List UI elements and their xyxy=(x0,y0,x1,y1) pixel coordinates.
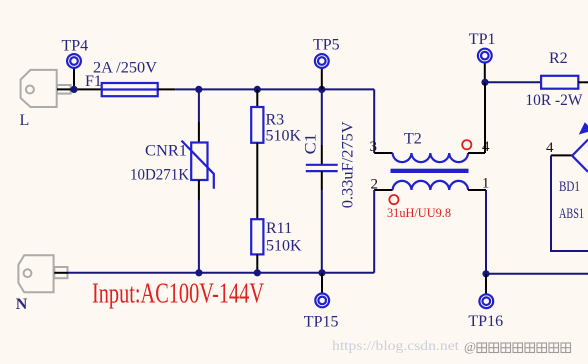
svg-text:TP16: TP16 xyxy=(468,313,503,330)
svg-text:T2: T2 xyxy=(404,131,422,148)
svg-text:Input:AC100V-144V: Input:AC100V-144V xyxy=(92,278,264,309)
test point TP16 xyxy=(468,274,503,330)
svg-text:31uH/UU9.8: 31uH/UU9.8 xyxy=(387,206,451,220)
svg-text:R2: R2 xyxy=(549,50,568,67)
connector L xyxy=(21,70,71,107)
resistor R3 xyxy=(251,89,301,219)
primary winding xyxy=(393,153,468,162)
resistor R2 xyxy=(525,50,583,109)
svg-text:TP4: TP4 xyxy=(62,38,89,55)
polarity dot primary (red circle) xyxy=(462,140,471,149)
wire T2 pin 1 down to bottom-right bus xyxy=(485,190,487,274)
polarity dot secondary (red circle) xyxy=(389,195,398,204)
pin 3 lead xyxy=(374,152,392,154)
svg-text:10D271K: 10D271K xyxy=(130,167,189,184)
fuse F1 xyxy=(85,60,158,97)
junction bottom CNR1 xyxy=(195,269,202,276)
svg-text:510K: 510K xyxy=(266,238,302,255)
diode arrow xyxy=(579,122,588,134)
wire junction to R2 xyxy=(485,81,541,83)
diamond edges xyxy=(572,140,588,172)
test point TP15 xyxy=(304,273,339,331)
connector N xyxy=(18,255,67,292)
secondary winding xyxy=(393,181,468,190)
svg-text:1: 1 xyxy=(482,176,490,192)
svg-text:BD1: BD1 xyxy=(559,179,580,195)
junction TP16 xyxy=(482,270,489,277)
svg-text:TP5: TP5 xyxy=(313,37,340,54)
watermark xyxy=(332,338,571,354)
svg-text:10R -2W: 10R -2W xyxy=(525,92,583,109)
wire L to fuse (black pin) xyxy=(57,88,102,90)
junction bottom R11 xyxy=(254,269,261,276)
junction top CNR1 xyxy=(195,86,202,93)
svg-text:510K: 510K xyxy=(266,128,302,145)
transformer T2 xyxy=(370,131,491,221)
resistor R11 xyxy=(251,219,302,273)
svg-text:R3: R3 xyxy=(266,112,285,129)
capacitor C1 xyxy=(302,89,356,272)
pin 4 lead xyxy=(551,154,572,156)
wire T2 pin 4 up to junction xyxy=(484,82,486,153)
svg-text:@: @ xyxy=(464,339,476,354)
pin 1 lead xyxy=(468,189,486,191)
wire bottom bus xyxy=(68,272,374,274)
wire bottom-right bus xyxy=(486,273,588,275)
svg-text:R11: R11 xyxy=(266,220,292,237)
body box xyxy=(551,155,588,251)
test point TP5 xyxy=(313,37,340,90)
bridge rectifier BD1 xyxy=(546,122,588,251)
pin 2 lead xyxy=(374,189,392,191)
core xyxy=(391,169,469,173)
svg-text:https://blog.csdn.net: https://blog.csdn.net xyxy=(332,338,459,353)
test point TP1 xyxy=(469,31,496,82)
test point TP4 xyxy=(62,38,89,90)
svg-text:TP1: TP1 xyxy=(469,31,496,48)
wire R2 right xyxy=(578,81,588,83)
junction at L/TP4 xyxy=(70,86,77,93)
svg-text:0.33uF/275V: 0.33uF/275V xyxy=(340,121,357,208)
wire fuse right pin (black) xyxy=(158,88,176,90)
junction top R3 xyxy=(254,86,261,93)
wire top bus xyxy=(175,88,374,90)
junction bottom C1/TP15 xyxy=(318,269,325,276)
svg-text:N: N xyxy=(16,296,28,313)
junction top C1/TP5 xyxy=(318,86,325,93)
svg-text:4: 4 xyxy=(546,140,554,156)
varistor CNR1 xyxy=(130,89,214,272)
wire T2 pin 2 down to bottom bus xyxy=(373,190,375,273)
svg-text:2A /250V: 2A /250V xyxy=(93,60,157,77)
svg-text:L: L xyxy=(20,112,30,129)
svg-text:C1: C1 xyxy=(302,133,319,154)
svg-text:CNR1: CNR1 xyxy=(145,143,187,160)
svg-text:ABS1: ABS1 xyxy=(559,206,584,222)
wire N pin (black) xyxy=(54,272,68,274)
svg-text:TP15: TP15 xyxy=(304,313,339,330)
wire top bus corner down to T2 pin 3 xyxy=(373,89,375,153)
pin 4 lead xyxy=(468,152,485,154)
junction TP1/R2/T2 pin4 xyxy=(481,79,488,86)
svg-text:3: 3 xyxy=(370,139,378,155)
